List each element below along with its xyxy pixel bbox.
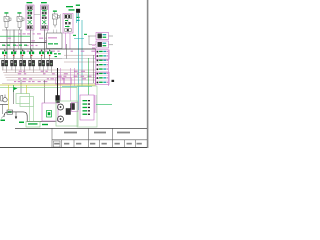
unit glyphs (83, 100, 91, 115)
wire teal-1 (78, 13, 80, 110)
wire green-h (0, 87, 77, 89)
terminal box TB-b (65, 78, 72, 84)
strip group box A (95, 50, 109, 59)
legend dash right (42, 124, 48, 125)
junction box JB1 (47, 33, 63, 49)
title verticals (52, 128, 136, 147)
dark drop x66.5 (66, 44, 68, 59)
wire green-out (96, 103, 112, 105)
green drop (88, 58, 90, 95)
stack S3 legs pink (66, 33, 71, 49)
filter element (47, 111, 52, 118)
wire to X2 (89, 36, 96, 45)
valve stack S3 (63, 6, 75, 33)
wire teal-top (74, 38, 84, 40)
wire teal-h (62, 86, 92, 88)
pump P2 (58, 104, 64, 110)
s3 side line (60, 14, 62, 36)
check valve (56, 96, 60, 103)
pink rail pair (95, 95, 97, 113)
black tick right (112, 80, 115, 82)
green legend box (26, 122, 40, 128)
title block top (15, 127, 147, 129)
harness band2 lines (2, 55, 96, 83)
motor M1 (7, 110, 13, 114)
net labels band1 (2, 33, 95, 51)
bus green line (0, 35, 30, 37)
level flag (14, 85, 18, 92)
green pipes down (30, 104, 34, 122)
unit inner box (80, 95, 94, 120)
solenoid valve row (2, 49, 8, 73)
wire yellow-v1 (8, 85, 10, 110)
title mid line (52, 139, 147, 141)
v1v2 base rail (2, 29, 23, 31)
strip left rail (93, 55, 95, 83)
suction hose (4, 112, 56, 122)
valve center-1 (66, 109, 71, 115)
connector X1 (96, 33, 109, 40)
valve V3 (53, 11, 60, 28)
sensor B1 (76, 5, 80, 22)
net labels band2 (14, 71, 92, 82)
bus line 2 (0, 48, 96, 50)
wire yellow-h (0, 84, 95, 86)
flag drop (13, 90, 15, 104)
sheet bottom (0, 147, 147, 149)
drop to boxes (21, 80, 45, 103)
pump unit box (56, 101, 78, 126)
wire X right (109, 36, 114, 45)
green dashes mid (54, 53, 61, 57)
gauge box (72, 103, 79, 112)
filter box F1 (42, 103, 58, 121)
wire yellow-v2 (26, 85, 28, 94)
hose arrow (15, 112, 17, 119)
pink marks left of X2 (92, 45, 95, 49)
riser pipe (57, 68, 59, 96)
valve stack S1 (26, 2, 34, 30)
title small cell (54, 141, 61, 147)
bus line 1 (0, 42, 62, 44)
pink drops (61, 68, 75, 101)
valve stack S2 (41, 2, 49, 30)
label LL2 (19, 122, 24, 124)
terminal box TB-a (56, 78, 64, 84)
diag line (1, 115, 5, 119)
wire teal-2 (81, 20, 83, 87)
stack link (34, 14, 41, 16)
valve center-2 (71, 104, 75, 110)
valve V2 (17, 12, 24, 30)
valve rail (0, 58, 62, 60)
pump P3 (58, 116, 64, 122)
unit outer box (77, 86, 97, 127)
nested green box inner (20, 97, 34, 107)
pump P1 (0, 95, 8, 115)
label LL1 (1, 120, 6, 122)
valve V1 (4, 12, 11, 30)
nested green box outer (16, 94, 30, 104)
connector X2 (96, 41, 109, 48)
terminal strip XT (96, 50, 109, 86)
title texts (54, 132, 142, 145)
wire teal-1b (76, 13, 78, 23)
wire to X1 (88, 35, 96, 37)
wire drops from top units (7, 30, 57, 59)
sheet right edge (147, 0, 149, 148)
strip group box B (95, 72, 109, 84)
